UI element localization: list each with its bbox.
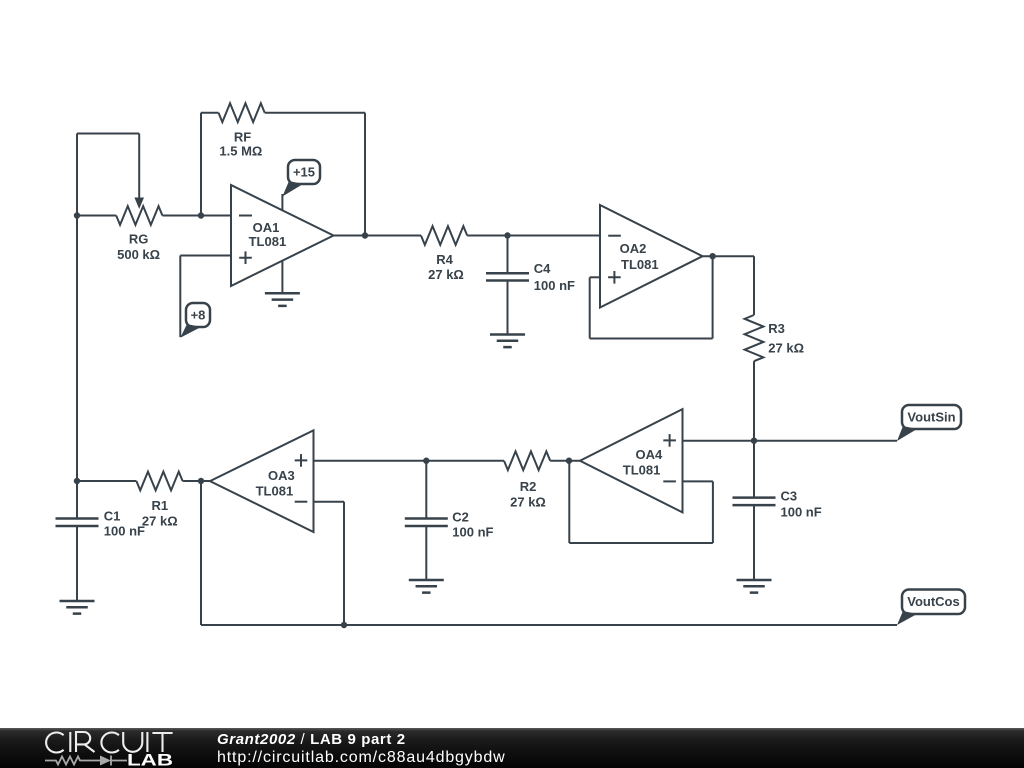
svg-text:500 kΩ: 500 kΩ — [117, 247, 160, 262]
ground C1 — [60, 601, 95, 614]
ground C3 — [737, 580, 772, 593]
svg-text:VoutSin: VoutSin — [907, 410, 955, 425]
capacitor C2 plates — [405, 519, 448, 527]
flag VoutSin box — [902, 405, 961, 429]
flag VoutSin tail — [897, 426, 917, 441]
wire R3 top lead — [753, 256, 755, 315]
wire RF top right lead — [265, 112, 365, 114]
svg-text:TL081: TL081 — [256, 483, 294, 498]
svg-text:27 kΩ: 27 kΩ — [428, 267, 464, 282]
wire OA1 output row — [334, 235, 422, 237]
OA4 minus symbol — [663, 480, 676, 482]
node OA3 inverting tap junction — [341, 622, 347, 628]
wire C4 tap — [507, 236, 509, 274]
wire OA2 feedback right vertical — [712, 256, 714, 338]
svg-text:OA2: OA2 — [620, 241, 647, 256]
svg-text:OA3: OA3 — [268, 468, 295, 483]
wire C2 tap — [425, 461, 427, 519]
wire OA4 inverting stub — [683, 480, 713, 482]
OA2 minus symbol — [608, 235, 621, 237]
CircuitLab logo — [40, 729, 185, 768]
wire R1 left lead — [77, 480, 136, 482]
svg-text:LAB: LAB — [127, 752, 173, 768]
wire RG right lead to OA1 inverting input — [162, 215, 231, 217]
wire C4 to ground — [507, 281, 509, 335]
wire C1 bottom to ground — [76, 526, 78, 601]
wire OA4 feedback right vertical — [712, 481, 714, 543]
wire R4 to OA2 — [467, 235, 600, 237]
svg-text:C3: C3 — [781, 488, 798, 503]
node OA4 output junction — [566, 458, 572, 464]
wire left rail vertical — [76, 134, 78, 519]
svg-text:R3: R3 — [768, 321, 785, 336]
node C1 R1 junction — [74, 478, 80, 484]
flag +8 tail — [180, 324, 201, 338]
node C4 tap junction — [504, 232, 510, 238]
flag +15 box — [288, 160, 320, 184]
svg-text:1.5 MΩ: 1.5 MΩ — [219, 144, 262, 159]
ground C4 — [490, 335, 525, 348]
wire OA4 feedback left vertical — [568, 461, 570, 543]
OA3 minus symbol — [295, 501, 308, 503]
flag +8 box — [186, 303, 210, 327]
svg-text:C2: C2 — [452, 509, 469, 524]
node C2 tap junction — [423, 458, 429, 464]
svg-text:OA4: OA4 — [636, 447, 664, 462]
wire R1 to OA3 output — [183, 480, 210, 482]
wire OA3 inverting drop — [343, 502, 345, 625]
OA1 V+ pin — [281, 194, 283, 210]
svg-text:27 kΩ: 27 kΩ — [768, 341, 804, 356]
svg-text:+15: +15 — [293, 165, 315, 180]
op-amp OA4 triangle — [580, 409, 683, 512]
capacitor C3 plates — [733, 498, 776, 506]
wire OA4 noninverting row to VoutSin — [683, 440, 898, 442]
svg-text:TL081: TL081 — [621, 257, 659, 272]
svg-text:100 nF: 100 nF — [534, 278, 575, 293]
svg-text:C4: C4 — [534, 261, 551, 276]
resistor R4 body — [421, 226, 467, 245]
footer watermark bar — [0, 728, 1024, 768]
footer text — [217, 731, 506, 767]
wire RF branch up — [200, 113, 202, 216]
capacitor C4 plates — [486, 273, 529, 280]
resistor R1 body — [136, 472, 182, 491]
svg-text:27 kΩ: 27 kΩ — [510, 495, 546, 510]
potentiometer RG wiper arrowhead — [134, 198, 144, 210]
OA1 V- pin — [281, 261, 283, 294]
potentiometer RG body — [116, 206, 162, 225]
node OA3 output junction — [198, 478, 204, 484]
svg-text:TL081: TL081 — [249, 234, 287, 249]
wire bottom rail to VoutCos — [201, 624, 897, 626]
svg-text:+8: +8 — [191, 308, 206, 323]
op-amp OA2 triangle — [600, 205, 703, 308]
wire OA3 inverting stub — [314, 501, 345, 503]
wire RG left lead — [77, 215, 116, 217]
svg-text:VoutCos: VoutCos — [907, 594, 959, 609]
OA4 plus symbol — [663, 434, 676, 447]
flag +15 tail — [282, 181, 303, 197]
OA1 minus symbol — [239, 215, 252, 217]
wire R2 to OA4 output — [550, 460, 580, 462]
node OA1 output junction — [362, 232, 368, 238]
svg-text:100 nF: 100 nF — [452, 525, 493, 540]
wire RG loop top — [77, 133, 139, 135]
node RG left junction — [74, 212, 80, 218]
OA1 plus symbol — [239, 251, 252, 264]
svg-text:RG: RG — [129, 232, 149, 247]
svg-text:R1: R1 — [151, 498, 168, 513]
resistor R3 body vertical — [745, 315, 764, 361]
op-amp OA3 triangle — [210, 430, 314, 532]
wire OA3 feedback left vertical — [200, 481, 202, 625]
svg-text:R4: R4 — [436, 252, 453, 267]
OA2 plus symbol — [608, 271, 621, 284]
ground OA1 — [265, 293, 300, 306]
node RG right junction — [198, 212, 204, 218]
wire +8 drop — [179, 256, 181, 338]
wire C2 to ground — [425, 526, 427, 580]
svg-text:R2: R2 — [520, 479, 537, 494]
op-amp OA1 triangle — [231, 185, 334, 286]
resistor R2 body — [504, 451, 550, 470]
svg-text:27 kΩ: 27 kΩ — [142, 514, 178, 529]
wire RF right vertical down to OA1 output — [364, 113, 366, 236]
svg-text:100 nF: 100 nF — [104, 523, 145, 538]
svg-text:RF: RF — [234, 130, 251, 145]
wire OA4 feedback bottom — [569, 542, 713, 544]
node R3 C3 VoutSin junction — [751, 438, 757, 444]
wire OA2 noninverting stub — [590, 276, 600, 278]
wire C3 to ground — [753, 505, 755, 580]
flag VoutCos box — [902, 590, 965, 615]
node OA2 output junction — [709, 253, 715, 259]
svg-text:OA1: OA1 — [253, 220, 280, 235]
flag VoutCos tail — [897, 611, 917, 625]
wire OA2 output to R3 column — [703, 255, 755, 257]
OA3 plus symbol — [295, 454, 308, 467]
wire OA2 feedback bottom — [590, 338, 713, 340]
svg-text:TL081: TL081 — [623, 463, 661, 478]
wire OA2 feedback left vertical — [589, 277, 591, 338]
wire R3 bottom lead — [753, 361, 755, 441]
wire OA3 noninverting row — [314, 460, 505, 462]
svg-text:C1: C1 — [104, 508, 121, 523]
capacitor C1 plates — [56, 519, 99, 527]
wire RG wiper drop — [138, 134, 140, 200]
svg-text:100 nF: 100 nF — [781, 504, 822, 519]
wire C3 tap — [753, 441, 755, 498]
ground C2 — [409, 580, 444, 593]
resistor RF body — [219, 103, 265, 122]
wire OA1 noninverting stub — [180, 255, 231, 257]
wire RF top left lead — [201, 112, 219, 114]
